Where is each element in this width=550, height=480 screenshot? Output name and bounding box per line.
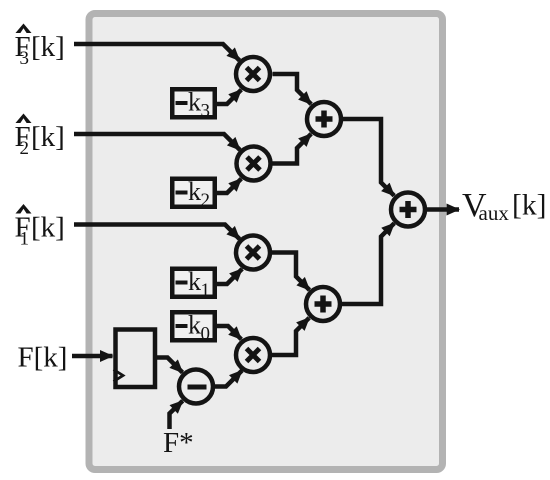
multiplier M2 (gain -k2) <box>237 147 271 181</box>
gain block -k0 <box>172 311 215 345</box>
svg-text:1: 1 <box>201 280 211 301</box>
svg-text:k: k <box>188 267 201 296</box>
svg-text:k: k <box>188 177 201 206</box>
adder A1 (top) <box>307 102 341 136</box>
gain block -k1 <box>172 267 215 301</box>
svg-text:k: k <box>188 311 201 340</box>
wire Fhat2 to multiplier M2 <box>74 134 240 150</box>
wire M1 to adder A2 <box>272 253 310 291</box>
wire Fhat3 to multiplier M3 <box>74 44 240 61</box>
svg-text:2: 2 <box>20 138 30 159</box>
wire M0 to adder A2 <box>272 318 309 355</box>
svg-text:aux: aux <box>479 201 510 225</box>
svg-text:3: 3 <box>201 101 211 122</box>
wire F[k] to register <box>72 354 113 359</box>
svg-text:1: 1 <box>20 229 30 250</box>
wire M2 to adder A1 <box>273 134 312 164</box>
wire A1 to final adder A3 <box>343 119 395 196</box>
svg-text:[k]: [k] <box>31 121 65 153</box>
svg-text:F*: F* <box>163 427 194 459</box>
adder A2 (bottom) <box>306 287 340 321</box>
label Fhat1[k] <box>15 204 65 250</box>
svg-text:3: 3 <box>20 48 30 69</box>
register (delay latch) <box>114 330 156 388</box>
wire M3 to adder A1 <box>273 74 312 104</box>
svg-text:F[k]: F[k] <box>18 342 68 374</box>
label Fhat2[k] <box>15 114 65 160</box>
wire -k2 to multiplier M2 <box>217 179 241 193</box>
wire F* to subtractor <box>170 401 183 429</box>
wire subtractor to multiplier M0 <box>214 371 243 387</box>
svg-text:[k]: [k] <box>31 212 65 244</box>
subtractor S <box>179 370 213 404</box>
label Vaux[k] <box>462 187 546 225</box>
svg-text:k: k <box>188 88 201 117</box>
svg-text:[k]: [k] <box>512 190 546 222</box>
multiplier M3 (top, gain -k3) <box>236 57 270 91</box>
gain block -k3 <box>172 88 215 122</box>
wire -k1 to multiplier M1 <box>217 269 242 284</box>
final adder A3 <box>391 193 425 227</box>
svg-text:0: 0 <box>201 324 211 345</box>
svg-text:[k]: [k] <box>31 31 65 63</box>
label Fhat3[k] <box>15 24 65 70</box>
wire register to subtractor <box>157 358 183 373</box>
wire Fhat1 to multiplier M1 <box>74 225 240 240</box>
gain block -k2 <box>172 177 215 211</box>
wire -k3 to multiplier M3 <box>217 90 241 104</box>
multiplier M1 (gain -k1) <box>236 236 270 270</box>
wire A3 to output Vaux[k] <box>427 207 459 212</box>
svg-text:2: 2 <box>201 190 211 211</box>
wire A2 to final adder A3 <box>342 223 394 304</box>
multiplier M0 (gain -k0) <box>236 338 270 372</box>
frame (shaded background box) <box>89 14 443 470</box>
wire -k0 to multiplier M0 <box>217 326 241 339</box>
